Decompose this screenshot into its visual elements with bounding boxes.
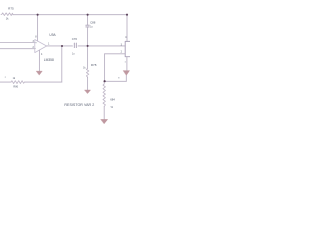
node bottom-right junction [104,80,106,82]
node top junction 1 [37,14,39,16]
wire op-amp input pin 2 [0,48,35,50]
wire vertical mid-left (output to bottom wire) [61,46,63,82]
wire op-amp pin 4 stem [38,50,40,71]
wire bottom horizontal [0,81,62,83]
wire vertical from top junction to op-amp pin 8 [37,15,39,42]
capacitor C76 wire gap [74,45,78,47]
capacitor C76 plate left [73,43,75,48]
wire vertical input-2 column [104,54,106,82]
ground (VAR2) [101,119,108,123]
op-amp U9A triangle [35,40,47,53]
wire op-amp input pin 3 [0,42,35,44]
junction dots [37,14,129,83]
wire ground stub right [125,75,127,81]
node top-right corner [126,14,128,16]
capacitor C76 plate right [75,43,77,48]
svg-text:U9A: U9A [49,33,56,37]
svg-text:C88: C88 [90,20,96,24]
node mid junction 2 [87,45,89,47]
svg-text:LM358: LM358 [44,58,54,62]
wire VAR2 to ground [103,107,105,120]
node mid junction 1 [61,45,63,47]
ground (op-amp) [36,71,42,75]
resistor R86 (bottom-left, horizontal zigzag) [11,81,25,84]
wire top horizontal [13,14,127,16]
svg-text:684: 684 [110,97,115,101]
IC box U? (right edge, cut off) [125,41,130,56]
wire box input 2 [105,53,126,55]
svg-text:C76: C76 [72,37,78,41]
resistor R75 (top-left, horizontal zigzag) [1,13,13,16]
wire vertical cap column lower [87,27,89,68]
svg-text:R86: R86 [13,86,18,89]
ground (box) [123,71,129,76]
wire op-amp output [47,45,126,47]
ground (R78) [85,90,91,94]
capacitor C88 plate top [86,24,90,26]
wire bottom-right horizontal [105,80,127,82]
wire R78 to ground [87,77,89,90]
capacitor C88 plate bottom [86,26,90,28]
svg-text:R78: R78 [91,63,97,67]
labels [5,6,127,109]
wire top-right vertical to box pin 4 [126,15,128,42]
svg-text:RESISTOR VAR 2: RESISTOR VAR 2 [64,103,94,107]
wire vertical cap column upper [87,15,89,25]
svg-text:R75: R75 [8,6,14,10]
resistor VAR2 (vertical zigzag) [103,81,105,106]
resistor R78 (vertical zigzag) [86,69,88,78]
svg-text:-: - [35,48,36,51]
wire box bottom pin stem [126,57,128,71]
node top junction 2 [87,14,89,16]
